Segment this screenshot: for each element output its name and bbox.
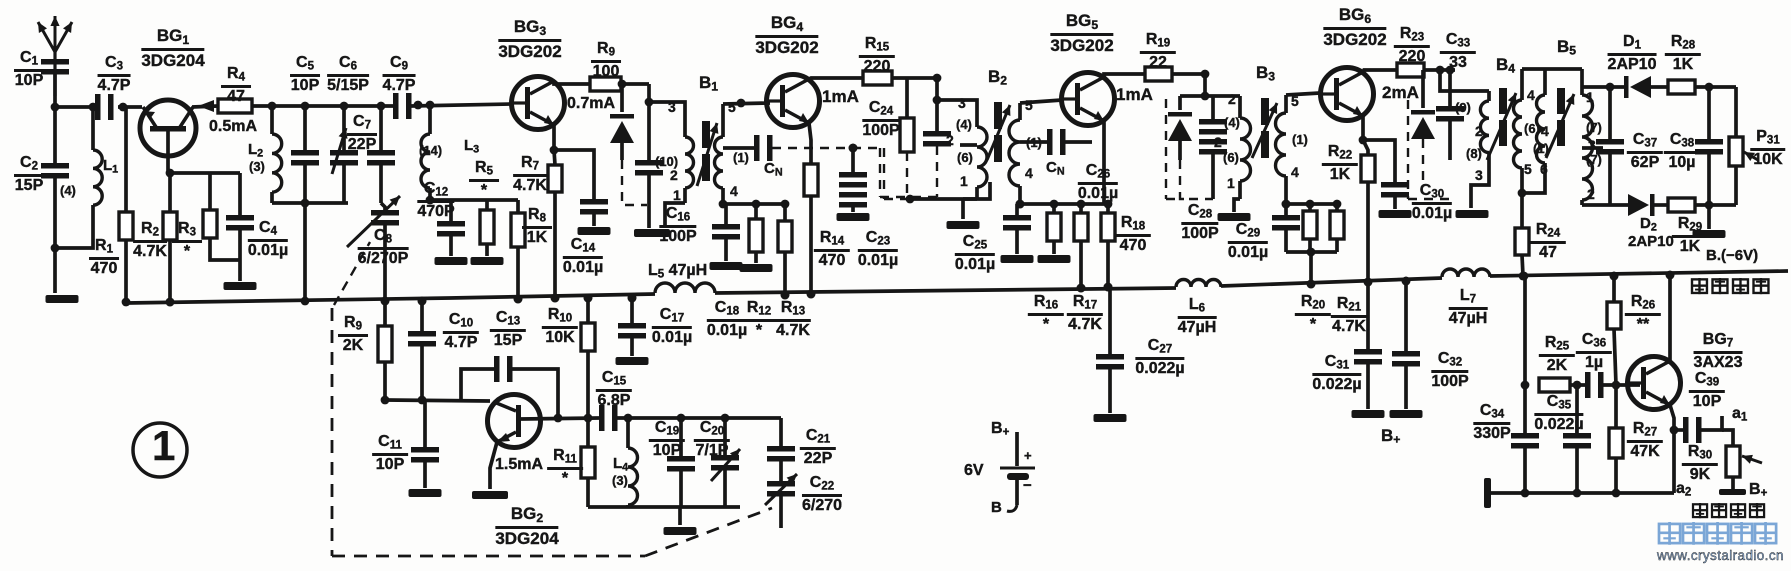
value label C36 1&#181; <box>1576 332 1612 372</box>
wire emitter BG5 <box>1102 121 1106 204</box>
text label (1) <box>1292 133 1308 146</box>
text label 1 <box>1227 176 1235 190</box>
B3 secondary <box>1284 95 1288 113</box>
value label C2 15P <box>14 155 44 195</box>
resistor R12 <box>754 204 758 219</box>
resistor Rb6b <box>1335 204 1339 211</box>
diode AGC1 <box>620 84 624 112</box>
transistor BG7 <box>1628 357 1681 410</box>
wire <box>1695 203 1736 207</box>
IF transformer B5 <box>1522 67 1582 71</box>
trimmer C20 <box>723 418 727 455</box>
wire <box>1570 383 1587 387</box>
transistor BG6 <box>1321 68 1374 121</box>
value label BG2 3DG204 <box>495 505 558 548</box>
transistor BG3 <box>512 77 565 130</box>
value label R11 * <box>547 448 583 488</box>
value label C37 62P <box>1627 132 1663 172</box>
wire collector BG2 <box>385 400 490 401</box>
text label (4) <box>1224 116 1240 129</box>
capacitor C9 <box>393 93 399 119</box>
resistor R9 2K <box>383 301 387 326</box>
capacitor C1 <box>41 59 69 65</box>
text label L4 <box>613 456 628 473</box>
value label BG6 3DG202 <box>1323 6 1386 49</box>
text label (7) <box>1586 121 1602 134</box>
value label R30 9K <box>1682 444 1718 484</box>
capacitor CN1 <box>723 146 754 150</box>
text label 4 <box>1291 165 1299 179</box>
wire detector top <box>1582 85 1626 89</box>
capacitor C38 <box>1707 87 1711 139</box>
resistor Rx <box>208 173 212 210</box>
resistor R9 <box>590 77 621 91</box>
resistor R28 <box>1651 85 1668 89</box>
node dots <box>414 101 423 110</box>
power rail B- <box>126 294 655 303</box>
value label R8 1K <box>522 207 552 247</box>
value label C14 0.01&#181; <box>563 237 603 277</box>
text label CN <box>764 161 783 178</box>
potentiometer P31 <box>1734 87 1738 137</box>
inductor L4 <box>626 418 630 448</box>
resistor R25 <box>1539 378 1570 392</box>
capacitor C4 <box>238 173 242 215</box>
text label 6V <box>964 463 984 479</box>
value label R29 1K <box>1672 216 1708 256</box>
inductor L6 on rail <box>1176 280 1221 287</box>
text label (14) <box>419 144 442 157</box>
text label 1 <box>673 188 681 202</box>
capacitor C17 <box>630 298 634 323</box>
value label C3 4.7P <box>98 55 131 95</box>
resistor R14 <box>804 164 818 196</box>
value label R9 100 <box>591 41 621 81</box>
text label B5 <box>1557 38 1576 57</box>
capacitor C33 <box>1448 70 1452 106</box>
text label 2 <box>946 133 954 147</box>
IF transformer B4 <box>1440 70 1489 91</box>
text label 2mA <box>1382 84 1419 101</box>
value label R4 47 <box>221 66 251 106</box>
resistor R2 <box>124 107 128 212</box>
value label C23 0.01&#181; <box>858 230 898 270</box>
node base BG1 <box>119 103 128 112</box>
value label C12 470P <box>417 181 454 221</box>
capacitor C27 <box>1108 287 1112 354</box>
text label 1 <box>960 174 968 188</box>
value label R20 * <box>1295 294 1331 334</box>
text label (8) <box>1466 147 1482 160</box>
value label C9 4.7P <box>383 55 416 95</box>
value label R12 * <box>741 300 777 340</box>
wire <box>892 76 937 80</box>
transistor BG5 <box>1062 73 1115 126</box>
antenna <box>53 52 56 96</box>
capacitor C25 <box>1015 204 1019 215</box>
wire <box>1180 94 1240 98</box>
wire <box>1695 85 1736 89</box>
value label L6 47&#181;H <box>1178 297 1217 337</box>
value label C5 10P <box>290 55 320 95</box>
resistor AGC2 <box>905 78 909 118</box>
text label 5 <box>1524 162 1532 176</box>
wire <box>1172 72 1205 76</box>
wire collector BG6 <box>1363 70 1397 72</box>
text label 5 <box>1025 98 1033 112</box>
value label R10 10K <box>542 307 578 347</box>
value label R7 4.7K <box>513 155 547 195</box>
capacitor C19 <box>679 418 683 456</box>
text label 4 <box>1025 166 1033 180</box>
value label BG5 3DG202 <box>1050 12 1113 55</box>
wire dashed AGC2 <box>772 147 884 149</box>
capacitor C32 <box>1404 281 1408 351</box>
value label C26 0.01&#181; <box>1078 163 1118 203</box>
text label 4 <box>1541 124 1549 138</box>
text label + <box>1024 449 1032 462</box>
wire base BG2 <box>521 418 599 419</box>
text label (9) <box>1455 101 1471 114</box>
value label L7 47&#181;H <box>1449 288 1488 328</box>
B2 secondary <box>1018 103 1022 120</box>
capacitor C35 <box>1575 385 1579 433</box>
capacitor C30 <box>1363 140 1395 182</box>
resistor R26 <box>1612 276 1616 302</box>
text label 2 <box>1587 187 1595 201</box>
value label C24 100P <box>862 100 899 140</box>
text label 1 <box>1586 90 1594 104</box>
diode D1 <box>1624 76 1629 98</box>
value label R16 * <box>1028 294 1064 334</box>
value label R14 470 <box>814 230 850 270</box>
text label 1mA <box>822 88 859 105</box>
text label 1.5mA <box>495 457 543 473</box>
inductor L5 on rail <box>655 283 715 293</box>
value label BG3 3DG202 <box>498 18 561 61</box>
resistor R22 <box>1363 140 1368 155</box>
value label C15 6.8P <box>596 370 632 410</box>
dashed oscillator box <box>331 308 334 556</box>
resistor R3 <box>168 173 172 212</box>
wire <box>621 82 649 86</box>
text label CN <box>1046 160 1065 177</box>
value label C11 10P <box>372 434 408 474</box>
ground <box>634 229 670 237</box>
text label B+ <box>1749 482 1767 500</box>
CJK text block <box>1693 504 1707 517</box>
ground <box>53 248 57 293</box>
text label D2 <box>1640 216 1657 233</box>
diode D2 <box>1628 194 1649 216</box>
value label P31 10K <box>1750 129 1785 169</box>
text label 0.5mA <box>209 119 257 135</box>
capacitor C3 <box>95 94 101 120</box>
wire <box>1424 68 1455 72</box>
battery 6V <box>1015 432 1019 466</box>
wire B4 B5 bottoms <box>1522 176 1545 193</box>
resistor R27 <box>1614 385 1618 428</box>
wire <box>411 104 511 106</box>
text label 3 <box>1588 138 1596 152</box>
wire detector bottom <box>1582 203 1628 207</box>
capacitor C15 <box>599 405 605 431</box>
resistor R10 <box>586 298 590 323</box>
text label www.crystalradio.cn <box>1657 549 1784 563</box>
node B1 top <box>647 84 651 160</box>
text label L5 47&#181;H <box>648 263 707 281</box>
ground detector <box>1707 205 1711 229</box>
value label C17 0.01&#181; <box>652 307 692 347</box>
B4 secondary <box>1520 69 1524 100</box>
wire <box>55 105 97 109</box>
value label C1 10P <box>14 50 44 90</box>
wire <box>170 171 240 175</box>
text label 2 <box>1214 135 1222 149</box>
value label R28 1K <box>1665 34 1701 74</box>
value label C30 0.01&#181; <box>1412 183 1452 223</box>
value label C31 0.022&#181; <box>1312 354 1361 394</box>
value label C10 4.7P <box>443 312 479 352</box>
text label (3) <box>249 160 265 173</box>
value label C8 6/270P <box>358 228 409 268</box>
text label 3 <box>668 100 676 114</box>
resistor R24 <box>1520 193 1524 228</box>
value label C13 15P <box>490 310 526 350</box>
text label (6) <box>1223 151 1239 164</box>
resistor R5 <box>485 200 489 210</box>
value label C4 0.01&#181; <box>248 220 288 260</box>
dashed AGC3 box <box>1165 99 1167 199</box>
capacitor C24 <box>935 78 939 131</box>
text label 5 <box>728 100 736 114</box>
wire bias BG3 <box>430 198 518 202</box>
capacitor C31 <box>1366 282 1370 349</box>
value label R15 220 <box>859 36 895 76</box>
resistor R8 <box>516 200 520 213</box>
resistor R11 <box>586 418 590 447</box>
text label 3 <box>1475 168 1483 182</box>
ground B4 <box>1456 210 1489 218</box>
wire audio ground bus <box>1484 478 1491 508</box>
capacitor C37 <box>1608 87 1612 139</box>
text label (6) <box>957 151 973 164</box>
value label R24 47 <box>1530 222 1566 262</box>
CJK text block <box>1659 524 1680 543</box>
terminal B+ <box>1719 489 1746 495</box>
B1 secondary <box>721 104 725 137</box>
node B1 sec bottom <box>719 200 728 209</box>
symbol circled 1 <box>133 423 187 477</box>
resistor R19 <box>1145 67 1172 81</box>
wire output a1 <box>1701 416 1722 430</box>
text label 2 <box>670 168 678 182</box>
value label C38 10&#181; <box>1664 132 1700 172</box>
inductor L1 <box>91 107 95 150</box>
value label R2 4.7K <box>133 221 167 261</box>
node A2 <box>51 244 60 253</box>
value label C22 6/270 <box>802 475 842 515</box>
text label L3 <box>464 138 479 155</box>
text label 1 <box>152 425 175 467</box>
text label 2AP10 <box>1628 234 1674 249</box>
ground B2 <box>961 199 965 219</box>
text label (7) <box>1586 153 1602 166</box>
capacitor C13 feedback <box>461 369 494 400</box>
value label C32 100P <box>1431 351 1468 391</box>
value label C25 0.01&#181; <box>955 234 995 274</box>
resistor R13 <box>783 204 787 221</box>
diode AGC3 <box>1178 96 1182 110</box>
text label a1 <box>1732 406 1747 424</box>
value label C21 22P <box>800 428 836 468</box>
inductor L2 <box>270 106 274 134</box>
IF transformer B3 <box>1238 96 1242 118</box>
value label BG4 3DG202 <box>755 14 818 57</box>
value label BG1 3DG204 <box>141 27 204 70</box>
value label R3 * <box>172 221 202 261</box>
IF transformer B2 <box>937 100 977 108</box>
wire collector BG5 <box>1104 74 1145 77</box>
value label C16 100P <box>659 206 696 246</box>
resistor R7 <box>554 150 555 165</box>
value label BG7 3AX23 <box>1694 332 1743 372</box>
value label R27 47K <box>1627 421 1663 461</box>
text label 1mA <box>1116 86 1153 103</box>
value label R9 2K <box>338 315 368 355</box>
text label 5 <box>1291 94 1299 108</box>
wire collector BG3 <box>554 81 590 84</box>
node A1 <box>51 103 60 112</box>
capacitor C34 <box>1523 276 1527 385</box>
capacitor C7 <box>379 106 383 150</box>
text label B3 <box>1256 64 1275 83</box>
value label C28 100P <box>1181 203 1218 243</box>
capacitor C36 <box>1585 372 1591 398</box>
capacitor C23 <box>851 148 855 172</box>
trimmer C8 gang <box>381 203 385 210</box>
node emitter BG1 <box>166 169 175 178</box>
transistor BG2 mirrored <box>488 395 541 448</box>
capacitor C5 <box>303 106 307 150</box>
capacitor C11 <box>423 400 427 447</box>
dashed AGC2 box <box>879 148 881 197</box>
wire collector BG4 <box>809 78 863 79</box>
text label 2 <box>1228 92 1236 106</box>
node B2 sec bottom <box>1016 200 1025 209</box>
text label L1 <box>103 158 118 175</box>
node B3 sec bottom <box>1282 200 1291 209</box>
resistor R4 <box>218 99 252 113</box>
text label (1) <box>1533 142 1549 155</box>
value label R19 22 <box>1140 32 1176 72</box>
wire emitter BG4 <box>809 123 811 164</box>
text label 4 <box>1527 88 1535 102</box>
value label C35 0.022&#181; <box>1534 394 1583 434</box>
text label 0.7mA <box>567 96 615 112</box>
value label C39 10P <box>1689 371 1725 411</box>
wire base BG1 down <box>166 131 170 173</box>
value label C29 0.01&#181; <box>1228 222 1268 262</box>
resistor R17 <box>1106 204 1110 213</box>
capacitor C16 <box>635 160 663 166</box>
capacitor C12 <box>449 200 453 221</box>
resistor Re5 <box>1052 204 1056 213</box>
value label R25 2K <box>1539 335 1575 375</box>
wire collector BG1 <box>192 106 218 107</box>
wire dashed AGC1 <box>622 160 647 205</box>
capacitor C28 <box>1211 96 1215 119</box>
value label C34 330P <box>1473 403 1510 443</box>
resistor R15 <box>863 71 892 85</box>
capacitor C10 <box>420 301 424 331</box>
text label (10) <box>655 155 678 168</box>
wire osc bottom <box>588 505 740 509</box>
text label (4) <box>956 118 972 131</box>
text label B <box>991 500 1002 515</box>
text label (1) <box>733 151 749 164</box>
text label 6 <box>1540 162 1548 176</box>
text label (1) <box>1026 136 1042 149</box>
trimmer C6 <box>342 106 346 150</box>
value label R23 220 <box>1394 26 1430 66</box>
value label C6 5/15P <box>327 55 369 95</box>
text label B1 <box>699 74 718 93</box>
rail junctions <box>166 298 175 307</box>
wire emitter BG3 <box>552 125 556 150</box>
ground osc <box>678 507 682 525</box>
wire <box>1286 250 1337 254</box>
value label C20 7/1P <box>694 420 730 460</box>
value label R17 4.7K <box>1067 294 1103 334</box>
text label 4 <box>730 184 738 198</box>
capacitor CN2 <box>1020 140 1047 144</box>
value label C27 0.022&#181; <box>1135 338 1184 378</box>
resistor R16 <box>1079 204 1083 213</box>
ground B3 <box>1218 213 1251 221</box>
value label C7 22P <box>347 114 377 154</box>
transistor BG1 common-base <box>140 100 196 156</box>
transistor BG4 <box>767 75 820 128</box>
text label (4) <box>60 184 76 197</box>
text label B.(&#8722;6V) <box>1706 248 1758 263</box>
wire emitter BG7 to rail <box>1668 275 1672 361</box>
wire tank bottom <box>272 201 348 205</box>
value label R1 470 <box>89 238 119 278</box>
capacitor C18b <box>724 204 728 224</box>
value label C33 33 <box>1440 32 1476 72</box>
trimmer C22 <box>767 481 795 487</box>
value label D1 2AP10 <box>1608 34 1657 74</box>
diode AGC4 <box>1421 70 1425 108</box>
wire <box>252 104 395 108</box>
value label R21 4.7K <box>1331 296 1367 336</box>
resistor Rb6 <box>1308 204 1312 211</box>
capacitor C29 <box>1284 204 1288 215</box>
text label B+ <box>991 421 1009 439</box>
resistor R29 <box>1654 203 1668 207</box>
text label B4 <box>1496 56 1515 75</box>
text label a2 <box>1676 481 1691 499</box>
capacitor C2 <box>41 163 69 169</box>
IF transformer B1 <box>649 102 685 110</box>
wire base BG7 <box>1603 383 1640 387</box>
value label C19 10P <box>649 420 685 460</box>
text label (3) <box>612 474 628 487</box>
value label R13 4.7K <box>775 300 811 340</box>
capacitor C39 <box>1674 428 1683 432</box>
dashed AGC4 box <box>1407 100 1409 199</box>
